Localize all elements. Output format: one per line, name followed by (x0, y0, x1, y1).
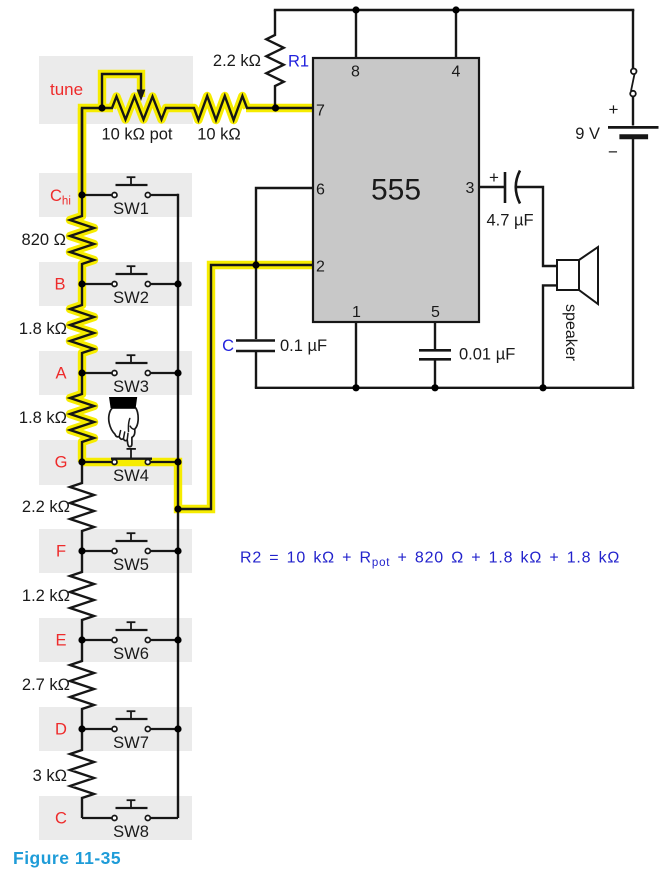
switch SW6 (82, 622, 178, 642)
wire: pin 6 lead to cap C (256, 188, 313, 339)
svg-text:4: 4 (452, 64, 461, 81)
wire: speaker bottom lead (543, 285, 556, 387)
wire: battery branch (632, 10, 634, 69)
svg-text:A: A (55, 365, 66, 383)
svg-text:SW5: SW5 (113, 556, 149, 574)
svg-text:tune: tune (50, 80, 83, 99)
capacitor 0.01uF (419, 349, 451, 352)
svg-text:E: E (55, 632, 66, 650)
node chain G (78, 458, 85, 465)
wire: pin 1 drop (355, 322, 357, 388)
svg-text:820 Ω: 820 Ω (22, 231, 66, 249)
node pin2/pin6 junction (252, 261, 259, 268)
node chain A (78, 369, 85, 376)
node bus SW7 (174, 725, 181, 732)
wire: yellow chain from tune down to G (70, 108, 94, 462)
svg-text:SW4: SW4 (113, 467, 149, 485)
tune highlight box (39, 56, 193, 124)
svg-text:F: F (56, 543, 66, 561)
node bottom rail speaker (539, 384, 546, 391)
wire: jog from bus to pin 2 (178, 265, 313, 509)
switch SW1 (82, 177, 178, 197)
svg-text:Figure 11-35: Figure 11-35 (13, 848, 121, 868)
svg-text:10 kΩ pot: 10 kΩ pot (101, 126, 172, 144)
svg-text:0.1 µF: 0.1 µF (280, 337, 327, 355)
node R1 / pin7 junction (272, 104, 279, 111)
svg-text:SW8: SW8 (113, 823, 149, 841)
black wires (70, 10, 635, 818)
svg-text:8: 8 (351, 64, 360, 81)
wire: pin 7 lead with pot and 10k resistor zigzags (82, 96, 313, 195)
node bus SW2 (174, 280, 181, 287)
svg-text:3: 3 (466, 180, 475, 197)
svg-text:1.8 kΩ: 1.8 kΩ (19, 409, 67, 427)
svg-text:C: C (222, 337, 234, 355)
hand cuff (109, 397, 137, 408)
svg-text:SW3: SW3 (113, 378, 149, 396)
node chain F (78, 547, 85, 554)
battery 9V plates (608, 126, 659, 129)
svg-text:R2 = 10 kΩ + Rpot + 820 Ω + 1.: R2 = 10 kΩ + Rpot + 820 Ω + 1.8 kΩ + 1.8… (240, 550, 620, 570)
svg-text:2.2 kΩ: 2.2 kΩ (213, 52, 261, 70)
node bus jog (174, 505, 181, 512)
wire: pin 4 drop (455, 10, 457, 58)
switch row highlight boxes SW1-SW8 (39, 173, 192, 840)
wire: resistor chain 820/1.8k/1.8k/2.2k/1.2k/2.7k/3k (70, 108, 94, 818)
svg-text:3 kΩ: 3 kΩ (33, 767, 67, 785)
switch: battery contact circles (631, 69, 637, 75)
svg-text:+: + (609, 100, 619, 119)
switch: battery blade (631, 74, 635, 91)
svg-text:5: 5 (431, 304, 440, 321)
node bus SW4 (174, 458, 181, 465)
resistor R1 2.2k vertical (266, 10, 283, 108)
svg-text:SW1: SW1 (113, 200, 149, 218)
capacitor C 0.1uF (236, 339, 275, 342)
wire: switch bus vertical (177, 194, 179, 818)
node chain D (78, 725, 85, 732)
svg-text:6: 6 (316, 182, 325, 199)
svg-text:R1: R1 (288, 53, 309, 71)
switch SW3 (82, 355, 178, 375)
node bottom rail pin5 (431, 384, 438, 391)
wire: pot wiper bracket (102, 74, 141, 108)
svg-text:D: D (55, 721, 67, 739)
svg-text:1: 1 (352, 304, 361, 321)
svg-text:−: − (608, 143, 618, 162)
svg-text:2: 2 (316, 259, 325, 276)
svg-text:1.2 kΩ: 1.2 kΩ (22, 587, 70, 605)
switch SW8 (82, 800, 178, 820)
svg-text:555: 555 (371, 174, 421, 207)
555 IC body (313, 58, 479, 322)
hand cursor pressing SW4 (109, 397, 138, 447)
node top rail pin4 (452, 6, 459, 13)
switch SW2 (82, 266, 178, 286)
svg-text:speaker: speaker (562, 304, 579, 362)
node top rail pin8 (352, 6, 359, 13)
svg-text:B: B (54, 276, 65, 294)
wire: top rail (274, 9, 635, 11)
node chain Chi (78, 191, 85, 198)
wiper arrowhead (137, 90, 146, 102)
svg-text:10 kΩ: 10 kΩ (197, 126, 241, 144)
wire: pin 5 drop (434, 322, 436, 349)
node bus SW5 (174, 547, 181, 554)
svg-text:G: G (55, 454, 68, 472)
svg-text:7: 7 (316, 103, 325, 120)
speaker (557, 247, 598, 304)
wire: bottom rail (255, 387, 635, 389)
svg-text:0.01 µF: 0.01 µF (459, 346, 515, 364)
wire: yellow wiper bracket (102, 74, 141, 108)
node pot wiper junction (98, 104, 105, 111)
node bus SW3 (174, 369, 181, 376)
wire: pin 3 lead (479, 186, 504, 188)
svg-text:9 V: 9 V (575, 125, 600, 143)
yellow highlighted current path (70, 74, 312, 509)
svg-text:2.2 kΩ: 2.2 kΩ (22, 498, 70, 516)
capacitor 4.7uF polarized (504, 172, 507, 203)
switch SW7 (82, 711, 178, 731)
wire: yellow top horizontal through pot and 10k to pin 7 (82, 108, 113, 195)
svg-text:2.7 kΩ: 2.7 kΩ (22, 676, 70, 694)
svg-text:C: C (55, 810, 67, 828)
node bottom rail pin1 (352, 384, 359, 391)
svg-text:4.7 µF: 4.7 µF (486, 212, 533, 230)
node chain B (78, 280, 85, 287)
wire: yellow SW4 row, jog and up to pin 2 (82, 265, 312, 509)
switch SW4 pressed closed (82, 449, 178, 465)
svg-text:SW2: SW2 (113, 289, 149, 307)
switch SW5 (82, 533, 178, 553)
svg-text:SW6: SW6 (113, 645, 149, 663)
svg-text:+: + (489, 168, 499, 187)
node bus SW6 (174, 636, 181, 643)
wire: pin 8 drop (355, 10, 357, 58)
svg-text:1.8 kΩ: 1.8 kΩ (19, 320, 67, 338)
svg-text:SW7: SW7 (113, 734, 149, 752)
node chain E (78, 636, 85, 643)
